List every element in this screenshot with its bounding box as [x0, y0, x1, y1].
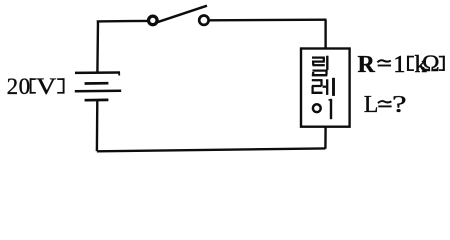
wire relay top lead — [324, 20, 326, 49]
bracket [ of 20[V] — [30, 78, 36, 93]
wire top rail right segment — [209, 19, 327, 22]
approx symbol on R line — [377, 60, 391, 65]
hangul I 이 — [313, 99, 332, 119]
label V of battery voltage — [36, 75, 56, 98]
bracket [ of kOhm — [407, 56, 414, 71]
wire left vertical battery bottom lead — [96, 101, 99, 152]
label R — [358, 53, 375, 77]
relay box outline — [301, 49, 350, 127]
label 1 — [393, 53, 405, 77]
label question mark — [392, 93, 407, 117]
battery B1 short plate upper — [85, 82, 109, 85]
battery B1 long plate top — [75, 71, 120, 74]
label k — [415, 53, 427, 77]
battery B1 long plate lower — [75, 90, 121, 93]
label 20 of battery voltage — [7, 75, 31, 98]
label Omega — [422, 53, 439, 77]
wire relay bottom lead — [324, 127, 327, 149]
switch S1 open blade — [156, 6, 208, 23]
hangul RE 레 — [312, 78, 334, 96]
wire bottom rail — [97, 148, 326, 151]
label L — [364, 93, 379, 117]
wire top rail left segment — [97, 20, 149, 23]
switch S1 left terminal circle — [149, 16, 158, 25]
switch S1 right terminal circle — [199, 16, 208, 25]
wire left vertical battery top lead — [96, 21, 99, 73]
hangul RIL 릴 — [312, 56, 328, 75]
bracket ] of kOhm — [439, 56, 445, 71]
battery B1 short plate bottom — [85, 99, 109, 102]
approx symbol on L line — [378, 101, 392, 106]
bracket ] of 20[V] — [57, 78, 64, 93]
